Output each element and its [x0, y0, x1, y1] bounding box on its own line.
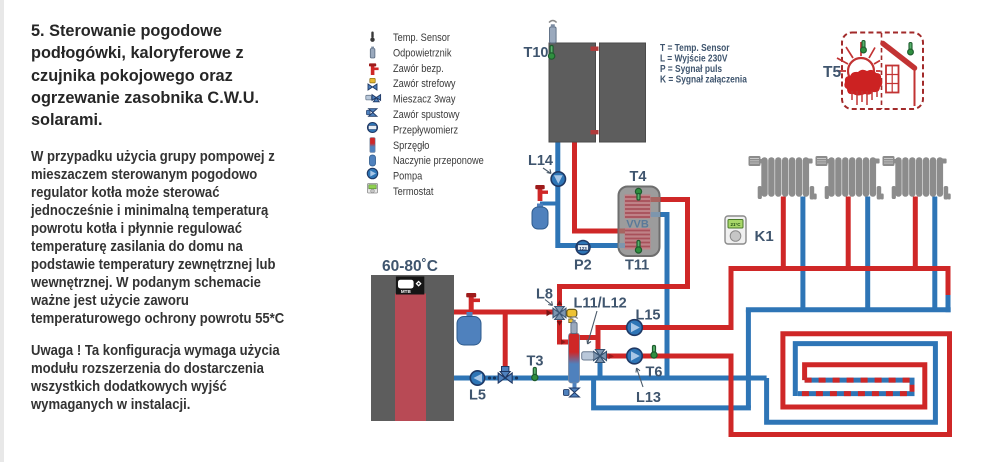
sensor T3: [532, 368, 538, 381]
svg-text:L8: L8: [536, 287, 553, 303]
svg-text:MTB: MTB: [401, 289, 412, 294]
wire red mixer top stub: [596, 335, 601, 351]
red connector nibs between panels: [591, 47, 599, 135]
svg-text:21°C: 21°C: [730, 222, 741, 227]
node label T3: [527, 354, 544, 370]
svg-text:L5: L5: [469, 388, 486, 404]
legend icon naczynie przeponowe: [370, 155, 376, 166]
svg-text:L13: L13: [636, 390, 661, 406]
svg-text:Sprzęgło: Sprzęgło: [393, 140, 430, 152]
solar panel 2: [600, 43, 646, 142]
DHW tank T4/VVB: [619, 187, 661, 257]
wire blue main return line boiler-to-floor: [454, 376, 767, 381]
sensor T4 on tank top: [635, 188, 641, 200]
sensor T10 on solar panel: [548, 46, 554, 60]
wire red-blue end-of-main bypass right: [946, 266, 951, 312]
node label T5: [823, 64, 841, 81]
wire blue underfloor return spiral: [767, 344, 936, 423]
sensor T6: [651, 346, 657, 359]
svg-text:T3: T3: [527, 354, 544, 370]
wire red riser to radiator circuit with L15: [598, 269, 731, 341]
boiler body: [371, 275, 454, 421]
svg-text:T10: T10: [524, 45, 549, 61]
pump L15: [627, 320, 643, 336]
legend icon mieszacz 3way: [366, 95, 381, 102]
3-way mixing valve on return (with red actuator head): [498, 367, 512, 384]
svg-text:Zawór strefowy: Zawór strefowy: [393, 79, 456, 91]
pump L5: [470, 371, 484, 385]
wire red DHW loop L8 up to tank top: [560, 200, 688, 308]
node label L8 with arrow: [536, 287, 553, 306]
svg-text:Przepływomierz: Przepływomierz: [393, 125, 458, 137]
node label T10: [524, 45, 549, 61]
radiator 1: [749, 156, 817, 200]
legend key text: [660, 42, 748, 84]
svg-text:Pompa: Pompa: [393, 171, 423, 183]
wire red radiator 3 supply drop: [913, 197, 918, 269]
label 60-80°C: [382, 258, 438, 275]
safety valve on solar return: [535, 185, 548, 201]
radiator 3: [883, 156, 951, 200]
node label T11: [625, 258, 649, 274]
wire blue tank DHW return: [660, 215, 668, 379]
zone valve L8 with yellow actuator: [547, 300, 577, 326]
svg-text:P2: P2: [574, 258, 592, 274]
legend icon przeplywomierz: [368, 123, 378, 133]
thermostat K1: [725, 216, 746, 244]
svg-text:L14: L14: [528, 153, 553, 169]
svg-text:L = Wyjście 230V: L = Wyjście 230V: [660, 53, 728, 64]
svg-text:K1: K1: [755, 228, 774, 245]
node label L11/L12 with arrow: [574, 296, 627, 345]
wire red boiler supply to L8: [454, 310, 553, 315]
left text column: [31, 20, 371, 414]
wire red drop to 3-way valve: [503, 314, 508, 366]
drain valve under separator: [564, 383, 580, 397]
svg-text:T5: T5: [823, 64, 841, 81]
port dots on boiler return: [488, 376, 518, 379]
wire blue radiator return descender: [746, 310, 751, 408]
svg-text:T6: T6: [646, 365, 663, 381]
svg-text:K = Sygnał załączenia: K = Sygnał załączenia: [660, 74, 748, 85]
svg-text:VVB: VVB: [626, 219, 649, 231]
wire red floor supply line with L13: [606, 354, 731, 359]
flow meter P2: [576, 241, 590, 255]
node label L14 with arrow: [528, 153, 553, 174]
node label T6: [646, 365, 663, 381]
node label L15: [636, 308, 661, 324]
wire red underfloor supply spiral: [731, 334, 950, 435]
svg-text:L15: L15: [636, 308, 661, 324]
left gray edge strip: [0, 0, 4, 462]
hydraulic separator (sprzeglo): [569, 333, 580, 383]
wire blue mixer bottom port stub: [598, 360, 603, 378]
wire red radiator 1 supply drop: [781, 197, 786, 269]
node label L13 with arrow: [636, 368, 661, 406]
solar panel 1: [549, 43, 596, 142]
legend icon zawor strefowy: [368, 78, 377, 90]
air vent on separator: [570, 317, 578, 334]
wire blue solar return: panel to L14 to P2 to tank: [558, 142, 619, 246]
wire blue branch to expansion vessel: [540, 202, 558, 206]
svg-text:123: 123: [579, 246, 587, 251]
legend icon termostat: [368, 184, 378, 194]
wire red separator outlet to T junction: [579, 335, 598, 340]
sensor T11 on tank bottom: [635, 241, 641, 254]
expansion vessel on boiler supply: [457, 312, 481, 345]
safety valve on boiler supply: [466, 293, 480, 310]
node label L5: [469, 388, 486, 404]
legend icon temp sensor: [370, 32, 374, 42]
wire blue radiator 1 return drop: [800, 197, 805, 310]
legend icon sprzeglo: [370, 138, 375, 153]
flow arrow into separator: [561, 339, 566, 345]
svg-text:T11: T11: [625, 258, 649, 274]
svg-text:Naczynie przeponowe: Naczynie przeponowe: [393, 156, 484, 168]
wire blue radiator 3 return drop: [932, 197, 937, 310]
svg-text:Odpowietrznik: Odpowietrznik: [393, 48, 452, 60]
wire blue radiator 2 return drop: [865, 197, 870, 310]
wire red radiator supply main: [729, 266, 951, 271]
svg-text:P = Sygnał puls: P = Sygnał puls: [660, 63, 722, 74]
radiator 2: [816, 156, 884, 200]
air vent on solar panel: [549, 21, 557, 44]
svg-text:Temp. Sensor: Temp. Sensor: [393, 32, 450, 44]
T5 weather sensor house icon: [837, 33, 923, 110]
svg-text:Mieszacz 3way: Mieszacz 3way: [393, 94, 456, 106]
svg-text:Zawór spustowy: Zawór spustowy: [393, 109, 460, 121]
pump L13: [627, 348, 643, 364]
wire blue radiator return main: [746, 307, 951, 312]
svg-text:T4: T4: [630, 169, 647, 185]
node label K1: [755, 228, 774, 245]
svg-text:Zawór bezp.: Zawór bezp.: [393, 63, 444, 75]
wire blue lower return line from radiators: [594, 378, 751, 408]
node label T4: [630, 169, 647, 185]
legend icon pompa: [367, 168, 377, 178]
boiler display panel: [396, 277, 424, 295]
legend icon odpowietrznik: [370, 47, 375, 58]
svg-text:60-80˚C: 60-80˚C: [382, 258, 438, 275]
expansion vessel on solar return: [532, 204, 548, 230]
mixer valve L11/L12: [582, 350, 614, 363]
wire red L8 down to separator inlet: [560, 319, 570, 342]
legend icon zawor bezp: [369, 63, 379, 75]
wire dashed red-blue floor loop middle: [798, 380, 912, 394]
svg-text:L11/L12: L11/L12: [574, 296, 627, 312]
legend icon zawor spustowy: [367, 109, 377, 117]
svg-text:T = Temp. Sensor: T = Temp. Sensor: [660, 42, 730, 53]
wire red solar supply panel to tank: [575, 142, 619, 231]
pump L14: [551, 172, 565, 186]
wire red radiator 2 supply drop: [846, 197, 851, 269]
node label P2: [574, 258, 592, 274]
legend text column: [393, 32, 484, 198]
svg-text:Termostat: Termostat: [393, 186, 434, 198]
